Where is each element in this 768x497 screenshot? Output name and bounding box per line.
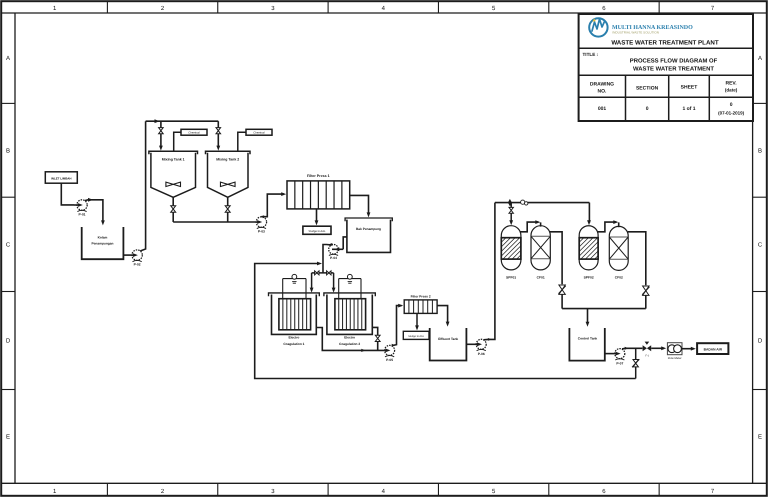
svg-text:SECTION: SECTION bbox=[636, 85, 659, 91]
wire drop to SPF02 bbox=[588, 203, 590, 223]
svg-text:Electro: Electro bbox=[288, 336, 299, 340]
svg-text:C: C bbox=[758, 241, 763, 248]
company logo Multi Hanna Kreasindo bbox=[589, 18, 607, 36]
svg-text:INDUSTRIAL WASTE SOLUTION: INDUSTRIAL WASTE SOLUTION bbox=[612, 31, 659, 35]
vessel CF01 bbox=[531, 226, 550, 270]
pump P-04 bbox=[329, 245, 339, 255]
wire CF02 outlet + valve bbox=[628, 232, 646, 285]
flow meter bbox=[667, 343, 682, 355]
svg-text:Coagulation 2: Coagulation 2 bbox=[339, 342, 360, 346]
svg-text:SHEET: SHEET bbox=[681, 84, 698, 90]
svg-text:(07-01-2019): (07-01-2019) bbox=[718, 111, 745, 116]
svg-text:Mixing Tank 1: Mixing Tank 1 bbox=[162, 158, 185, 162]
svg-text:P-06: P-06 bbox=[478, 352, 485, 356]
wire SPF02 to CF02 bbox=[597, 222, 616, 232]
svg-text:P-02: P-02 bbox=[134, 263, 141, 267]
wire drain tee + valve + return bbox=[635, 348, 637, 359]
svg-text:INLET LIMBAH: INLET LIMBAH bbox=[51, 177, 71, 181]
svg-text:PROCESS FLOW DIAGRAM OF: PROCESS FLOW DIAGRAM OF bbox=[630, 57, 718, 64]
wire drop to mixing tank 2 + valve bbox=[217, 121, 219, 127]
check valve symbol bbox=[521, 200, 525, 204]
electro coagulation tank EC2 bbox=[324, 293, 375, 296]
mixing tank MT2 bbox=[206, 151, 251, 154]
pump P-01 bbox=[77, 200, 87, 210]
pump P-06 bbox=[476, 339, 486, 349]
svg-text:NO.: NO. bbox=[598, 88, 608, 94]
wire FP1 outlet to Bak Penampung bbox=[350, 195, 369, 214]
svg-text:CF01: CF01 bbox=[537, 275, 545, 279]
svg-text:001: 001 bbox=[598, 106, 607, 112]
sludge box 1 bbox=[303, 226, 331, 234]
wire FP2 outlet to effluent tank bbox=[437, 306, 448, 325]
chemical box 2 bbox=[246, 129, 272, 135]
vessel CF02 bbox=[609, 226, 628, 270]
svg-text:A: A bbox=[6, 55, 10, 62]
svg-text:SPF01: SPF01 bbox=[506, 275, 516, 279]
svg-text:F-1: F-1 bbox=[645, 354, 649, 357]
tank Bak Penampung bbox=[345, 218, 392, 221]
pump P-03 bbox=[256, 217, 266, 227]
wire recycle return riser bbox=[255, 264, 636, 379]
svg-text:Sludge to AAL: Sludge to AAL bbox=[308, 230, 326, 233]
svg-text:E: E bbox=[6, 433, 10, 440]
filter press FP2 bbox=[404, 300, 437, 314]
svg-text:(date): (date) bbox=[725, 88, 738, 93]
svg-text:TITLE :: TITLE : bbox=[583, 52, 599, 57]
junction marker bbox=[508, 199, 512, 206]
tank Control Tank bbox=[569, 328, 604, 361]
wire inlet to P-01 bbox=[61, 183, 74, 205]
svg-text:D: D bbox=[758, 338, 763, 345]
svg-text:Kolam: Kolam bbox=[98, 235, 108, 239]
pump P-05 bbox=[385, 345, 395, 355]
svg-text:DRAWING: DRAWING bbox=[590, 81, 614, 87]
svg-text:B: B bbox=[6, 147, 10, 154]
svg-text:Flow Meter: Flow Meter bbox=[668, 356, 682, 360]
svg-text:C: C bbox=[6, 241, 11, 248]
inlet box INLET LIMBAH bbox=[45, 172, 77, 183]
wire collector to control tank bbox=[562, 308, 646, 310]
svg-text:Coagulation 1: Coagulation 1 bbox=[283, 342, 304, 346]
tank Kolam Penampungan bbox=[82, 227, 124, 259]
svg-text:0: 0 bbox=[730, 102, 733, 108]
svg-text:P-05: P-05 bbox=[386, 358, 393, 362]
svg-text:Bak Penampung: Bak Penampung bbox=[356, 227, 381, 231]
svg-text:Chemical: Chemical bbox=[253, 132, 265, 135]
wire MT1 outlet + valve bbox=[172, 197, 174, 205]
svg-text:A: A bbox=[758, 55, 762, 62]
sludge box 2 bbox=[403, 331, 429, 339]
wire collector to P-03 bbox=[173, 221, 256, 223]
wire valve to flow meter bbox=[651, 347, 664, 349]
wire EC2 outlet + valve bbox=[372, 327, 377, 335]
mixing tank MT1 bbox=[149, 151, 198, 154]
svg-text:P-01: P-01 bbox=[79, 213, 86, 217]
wire SPF01 to CF01 bbox=[520, 222, 539, 232]
svg-text:D: D bbox=[6, 338, 11, 345]
pump P-02 bbox=[132, 250, 142, 260]
wire CF01 outlet + valve bbox=[549, 232, 562, 284]
svg-text:Chemical: Chemical bbox=[188, 132, 200, 135]
svg-text:Effluent Tank: Effluent Tank bbox=[438, 337, 458, 341]
wire FP1 sludge drop bbox=[316, 209, 318, 223]
chemical box 1 bbox=[181, 129, 207, 135]
outlet box BADAN AIR bbox=[697, 343, 728, 354]
svg-text:P-03: P-03 bbox=[258, 230, 265, 234]
wire chemical 1 to tank 1 bbox=[174, 132, 181, 151]
wire feed header to mixing tanks bbox=[146, 120, 219, 122]
wire MT2 outlet + valve bbox=[227, 197, 229, 205]
title block bbox=[579, 14, 753, 121]
svg-text:Control Tank: Control Tank bbox=[578, 336, 598, 340]
control valve F-1 bbox=[643, 345, 647, 351]
svg-text:WASTE WATER TREATMENT PLANT: WASTE WATER TREATMENT PLANT bbox=[611, 39, 719, 46]
svg-text:0: 0 bbox=[646, 106, 649, 112]
wire drop to SPF01 + valve bbox=[510, 203, 512, 208]
wire Bak to P-04 suction bbox=[343, 237, 347, 249]
svg-text:Penampungan: Penampungan bbox=[92, 241, 114, 245]
vessel SPF01 bbox=[501, 226, 521, 270]
svg-text:Sludge to AAL: Sludge to AAL bbox=[408, 335, 424, 338]
svg-text:WASTE WATER TREATMENT: WASTE WATER TREATMENT bbox=[633, 66, 714, 73]
wire flow meter to outlet bbox=[682, 348, 694, 350]
svg-text:Filter Press 2: Filter Press 2 bbox=[411, 294, 431, 298]
wire filter header bbox=[495, 202, 590, 204]
svg-text:1 of 1: 1 of 1 bbox=[682, 106, 695, 112]
wire drop to mixing tank 1 + valve bbox=[160, 121, 162, 127]
svg-text:BADAN AIR: BADAN AIR bbox=[704, 348, 723, 352]
vessel SPF02 bbox=[579, 226, 598, 270]
EC feed splitter + valves bbox=[312, 272, 334, 274]
svg-text:Electro: Electro bbox=[344, 336, 355, 340]
svg-text:E: E bbox=[758, 433, 762, 440]
svg-text:Filter Press 1: Filter Press 1 bbox=[307, 174, 330, 178]
svg-text:SPF02: SPF02 bbox=[584, 275, 594, 279]
pump P-07 bbox=[615, 349, 625, 359]
svg-text:P-07: P-07 bbox=[616, 361, 623, 365]
svg-text:CF02: CF02 bbox=[615, 275, 623, 279]
svg-text:REV.: REV. bbox=[725, 80, 737, 86]
filter press FP1 bbox=[287, 181, 350, 209]
wire EC1 outlet bbox=[316, 328, 384, 351]
wire FP2 sludge drop bbox=[416, 313, 418, 328]
svg-text:Mixing Tank 2: Mixing Tank 2 bbox=[216, 158, 239, 162]
electro coagulation tank EC1 bbox=[269, 293, 320, 296]
wire chemical 2 to tank 2 bbox=[238, 132, 246, 151]
tank Effluent Tank bbox=[430, 328, 467, 361]
svg-text:B: B bbox=[758, 147, 762, 154]
svg-text:P-04: P-04 bbox=[330, 256, 337, 260]
